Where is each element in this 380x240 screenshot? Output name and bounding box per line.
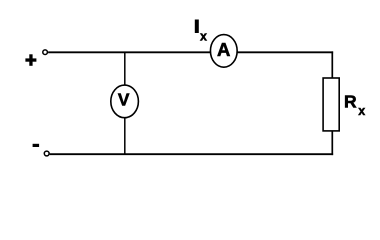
wire bottom (from - terminal to bottom-right corner) xyxy=(50,153,334,155)
terminal - (open circle, bottom-left) xyxy=(44,151,49,156)
svg-text:x: x xyxy=(200,30,207,44)
label Ix : letter I (drawn as bar) xyxy=(195,20,199,34)
svg-text:V: V xyxy=(118,90,130,110)
voltmeter V (ellipse on middle branch) xyxy=(111,85,139,118)
svg-text:A: A xyxy=(217,39,230,60)
wire middle branch lower (voltmeter bottom down to bottom wire) xyxy=(124,118,126,154)
wire right upper (top-right corner down to Rx top) xyxy=(331,51,333,78)
ammeter A (ellipse on top wire) xyxy=(210,35,237,68)
wire middle branch upper (top wire junction down to voltmeter) xyxy=(124,52,126,85)
wire top (from + terminal to top-right corner) xyxy=(48,51,333,53)
svg-text:R: R xyxy=(344,92,357,112)
wire right lower (Rx bottom down to bottom-right corner) xyxy=(331,131,333,155)
terminal + (open circle, top-left) xyxy=(43,50,48,55)
label - (polarity mark) xyxy=(33,144,40,147)
svg-text:x: x xyxy=(358,104,365,118)
resistor Rx (rectangle body) xyxy=(323,78,339,131)
label + (polarity mark) xyxy=(25,54,36,66)
